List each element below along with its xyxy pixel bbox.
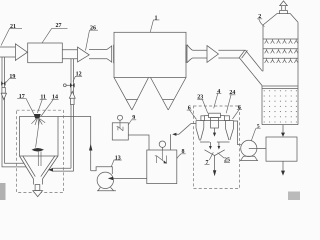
svg-text:24: 24	[229, 90, 235, 96]
svg-text:13: 13	[115, 155, 121, 161]
svg-text:21: 21	[10, 24, 16, 30]
svg-text:26: 26	[90, 26, 96, 32]
svg-text:11: 11	[40, 95, 46, 101]
svg-text:8: 8	[182, 149, 185, 155]
svg-text:12: 12	[76, 72, 82, 78]
svg-text:19: 19	[9, 74, 15, 80]
svg-text:9: 9	[132, 115, 135, 121]
svg-text:17: 17	[19, 94, 25, 100]
svg-text:27: 27	[56, 23, 62, 29]
svg-text:1: 1	[155, 15, 158, 21]
svg-text:7: 7	[206, 160, 209, 166]
svg-text:6: 6	[238, 105, 241, 111]
svg-text:25: 25	[224, 158, 230, 164]
